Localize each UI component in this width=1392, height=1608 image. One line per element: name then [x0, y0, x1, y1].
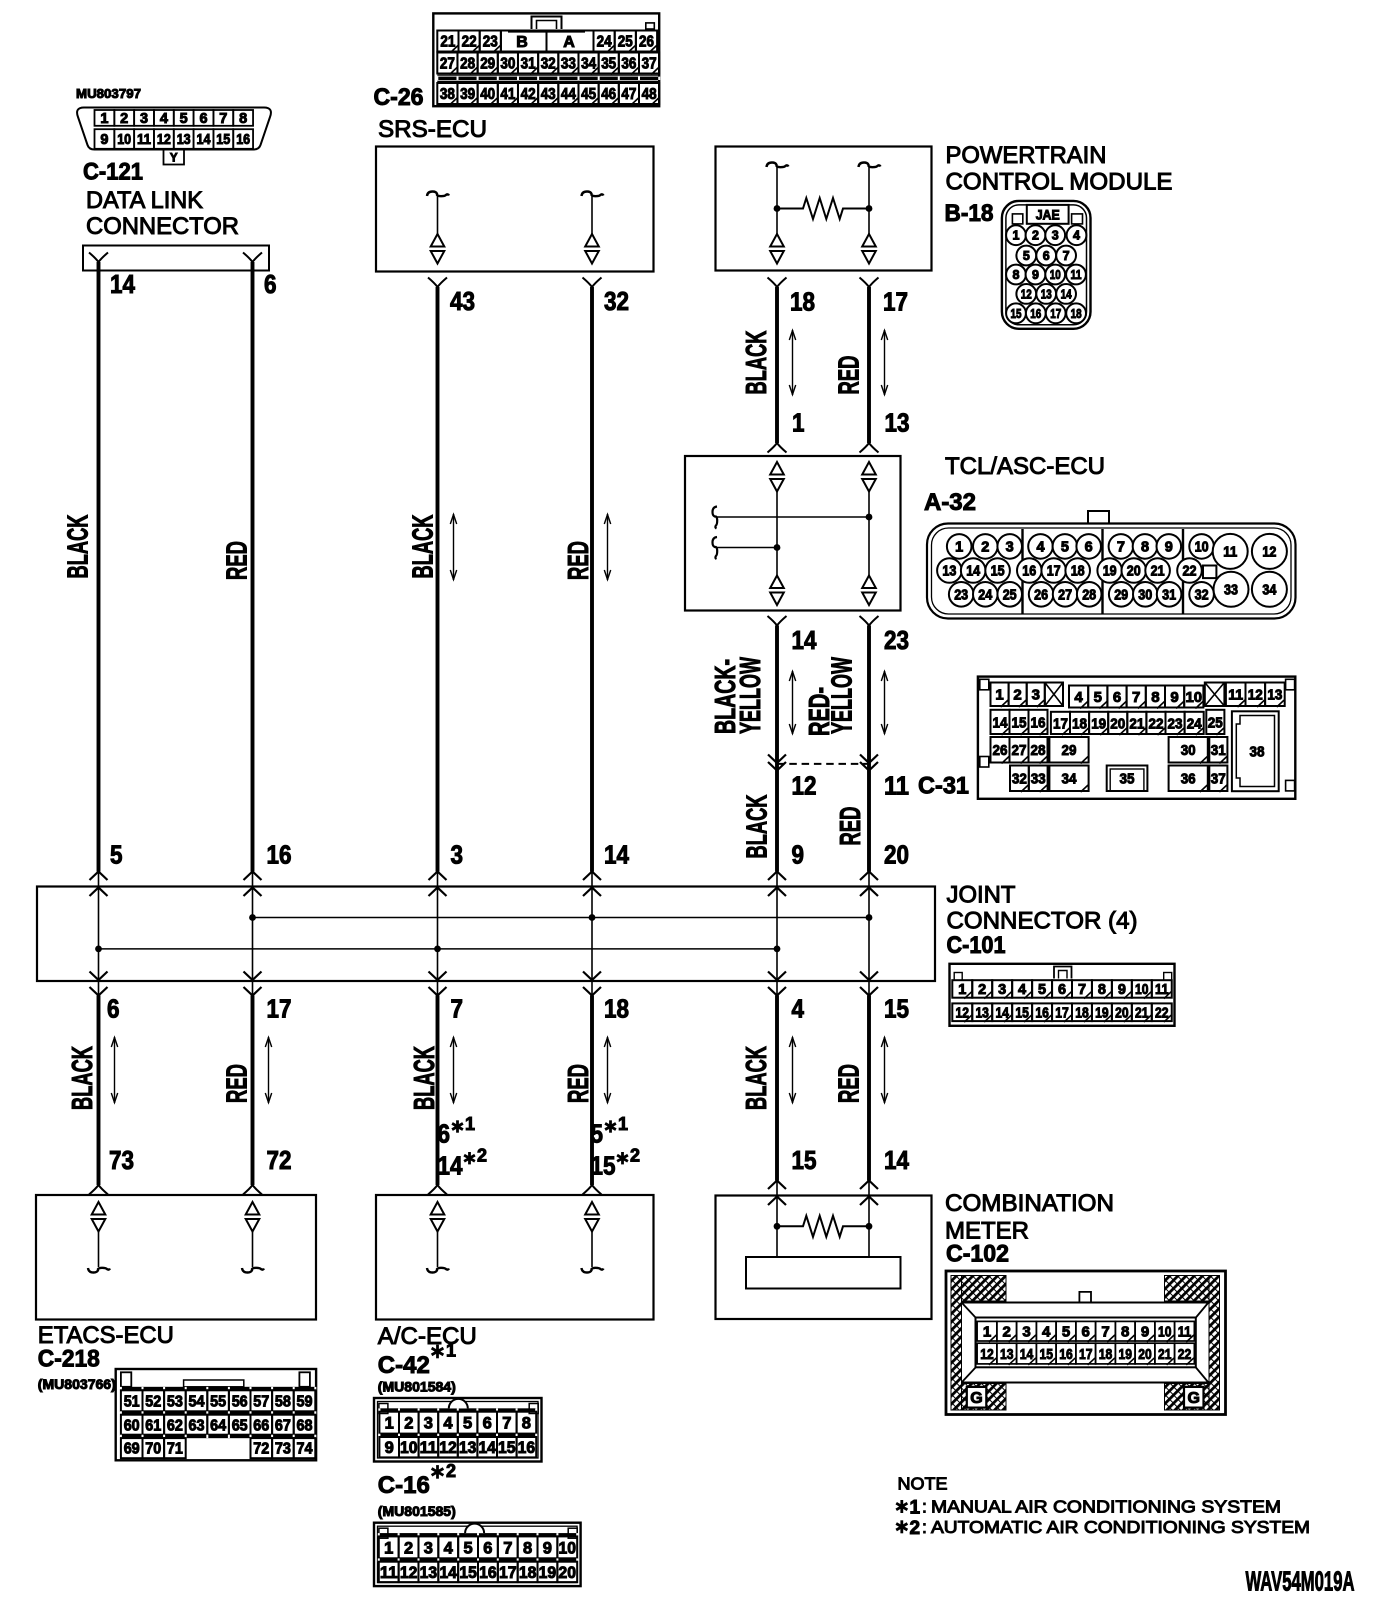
svg-text:57: 57 — [253, 1393, 269, 1410]
svg-text:6: 6 — [483, 1539, 492, 1557]
svg-text:27: 27 — [440, 56, 455, 73]
svg-text:36: 36 — [1181, 771, 1196, 788]
svg-text:29: 29 — [480, 56, 495, 73]
svg-text:6: 6 — [483, 1415, 492, 1433]
svg-text:4: 4 — [1073, 229, 1080, 243]
wire W4 thin segment inside C-101 — [591, 872, 593, 996]
svg-text:74: 74 — [297, 1441, 313, 1458]
svg-text:(MU801585): (MU801585) — [378, 1504, 456, 1519]
svg-text:CONTROL MODULE: CONTROL MODULE — [946, 169, 1173, 196]
svg-text:70: 70 — [145, 1441, 161, 1458]
TCL internal stem right — [868, 492, 870, 576]
svg-text:26: 26 — [639, 34, 654, 51]
svg-text:14: 14 — [438, 1150, 463, 1180]
svg-text:64: 64 — [210, 1417, 226, 1434]
svg-text:2: 2 — [910, 1518, 921, 1539]
TCL terminal triangles top pin 13 — [862, 462, 876, 492]
pin label 12 — [792, 771, 817, 801]
svg-text:3: 3 — [1006, 540, 1014, 556]
svg-text:2: 2 — [477, 1146, 487, 1166]
label C-16 *2 — [378, 1461, 456, 1499]
svg-text:32: 32 — [1195, 588, 1209, 604]
arrow on W5 (TCL-C31) — [789, 671, 795, 734]
svg-text:11: 11 — [1178, 1324, 1192, 1341]
svg-text:18: 18 — [519, 1564, 537, 1582]
svg-text:15: 15 — [498, 1439, 516, 1457]
svg-text:C-16: C-16 — [378, 1472, 430, 1499]
label ETACS-ECU — [38, 1322, 174, 1349]
svg-text:32: 32 — [541, 56, 556, 73]
wire color label BLACK (W3) — [408, 514, 440, 578]
svg-text:60: 60 — [124, 1417, 140, 1434]
wire color label RED-YELLOW — [804, 657, 859, 736]
svg-text:12: 12 — [792, 771, 817, 801]
svg-text:10: 10 — [559, 1539, 577, 1557]
svg-text:43: 43 — [450, 286, 475, 316]
label C-121 — [83, 158, 143, 185]
svg-text:15: 15 — [591, 1150, 616, 1180]
svg-text:RED: RED — [563, 541, 595, 580]
TCL internal horizontal line upper with curl, to W6 — [713, 507, 870, 529]
connector C-101 pinout graphic — [950, 964, 1175, 1026]
svg-text:10: 10 — [1050, 268, 1061, 282]
svg-text:2: 2 — [630, 1146, 640, 1166]
svg-text:25: 25 — [1003, 588, 1017, 604]
label DATA LINK CONNECTOR — [86, 187, 239, 240]
arrow on W2 below C-101 — [265, 1037, 271, 1103]
svg-text:RED: RED — [563, 1064, 595, 1103]
svg-text:28: 28 — [1082, 588, 1096, 604]
crossing chevrons W1 at C-101 top — [90, 872, 108, 897]
svg-text:15: 15 — [792, 1145, 817, 1175]
crossing chevrons W4 at C-101 top — [583, 872, 601, 897]
wire W2 thin segment inside C-101 — [252, 872, 254, 996]
wire color label BLACK (PCM-TCL) — [741, 330, 773, 394]
svg-text:7: 7 — [219, 111, 227, 127]
svg-text:68: 68 — [297, 1417, 313, 1434]
svg-text:20: 20 — [1138, 1346, 1152, 1363]
pin label 9 — [792, 839, 805, 869]
svg-text:8: 8 — [1121, 1324, 1129, 1341]
svg-text:33: 33 — [1224, 583, 1238, 599]
crossing chevrons W6 at C-31 — [860, 755, 878, 771]
svg-text:SRS-ECU: SRS-ECU — [378, 116, 487, 143]
crossing chevrons W5 at C-101 top — [768, 872, 786, 897]
svg-text:38: 38 — [440, 86, 455, 103]
svg-text:72: 72 — [267, 1145, 292, 1175]
wire W6 thin segment inside C-101 — [868, 872, 870, 996]
svg-text:20: 20 — [884, 839, 909, 869]
svg-text:24: 24 — [978, 588, 992, 604]
svg-text:18: 18 — [790, 287, 815, 317]
svg-text:C-26: C-26 — [374, 84, 424, 111]
svg-text:23: 23 — [1168, 715, 1183, 732]
svg-text:13: 13 — [459, 1439, 477, 1457]
svg-text:G: G — [970, 1390, 982, 1407]
svg-text:1: 1 — [465, 1114, 475, 1134]
svg-text:9: 9 — [1141, 1324, 1149, 1341]
svg-text:BLACK: BLACK — [741, 330, 773, 394]
wire W6 RED segment C-31 pin11 to C-101 pin20 — [867, 763, 871, 872]
svg-text:69: 69 — [124, 1441, 140, 1458]
svg-text:17: 17 — [1050, 307, 1061, 321]
NOTE text block — [896, 1474, 1310, 1539]
meter unit rectangle — [746, 1257, 901, 1289]
svg-text:22: 22 — [1183, 564, 1197, 580]
svg-text:12: 12 — [1248, 687, 1263, 704]
svg-text:9: 9 — [792, 839, 805, 869]
svg-text:48: 48 — [642, 86, 657, 103]
svg-text:8: 8 — [1151, 689, 1159, 706]
svg-text:8: 8 — [523, 1539, 532, 1557]
svg-text:34: 34 — [581, 56, 596, 73]
A/C-ECU terminal triangles left + stem + curl — [427, 1202, 449, 1273]
pin label 16 — [267, 839, 292, 869]
svg-text:26: 26 — [1034, 588, 1048, 604]
svg-text:POWERTRAIN: POWERTRAIN — [946, 142, 1107, 169]
connector C-16 pinout graphic — [374, 1523, 581, 1586]
svg-text:14: 14 — [792, 625, 817, 655]
svg-text:11: 11 — [1223, 545, 1237, 561]
wire W5 BLACK segment C-31 pin12 to C-101 pin9 — [775, 763, 779, 872]
svg-text:3: 3 — [451, 839, 464, 869]
svg-text:12: 12 — [439, 1439, 457, 1457]
svg-text:16: 16 — [1031, 714, 1046, 731]
svg-text:1: 1 — [100, 111, 108, 127]
svg-text:37: 37 — [1211, 771, 1226, 788]
svg-text:13: 13 — [420, 1564, 438, 1582]
svg-text:4: 4 — [792, 994, 805, 1024]
svg-text:29: 29 — [1062, 742, 1077, 759]
svg-text:34: 34 — [1062, 771, 1078, 788]
pin label 5 — [110, 839, 123, 869]
svg-text:23: 23 — [483, 34, 498, 51]
svg-text:BLACK: BLACK — [741, 1046, 773, 1110]
label C-26 — [374, 84, 424, 111]
wire color label RED (W6 bottom) — [834, 1064, 866, 1103]
svg-text:TCL/ASC-ECU: TCL/ASC-ECU — [945, 453, 1105, 480]
svg-text:31: 31 — [1162, 588, 1176, 604]
svg-text:5: 5 — [1038, 982, 1046, 998]
svg-text:14: 14 — [993, 714, 1009, 731]
svg-text:17: 17 — [499, 1564, 517, 1582]
svg-text:MANUAL AIR CONDITIONING SYSTEM: MANUAL AIR CONDITIONING SYSTEM — [931, 1497, 1281, 1517]
wire W1 BLACK segment C-121 pin14 to C-101 pin5 — [97, 262, 101, 872]
wire W2 RED segment C-121 pin6 to C-101 pin16 — [251, 262, 255, 872]
svg-text:MU803797: MU803797 — [76, 86, 141, 101]
svg-text:31: 31 — [521, 56, 536, 73]
terminal fork C-218 pin 73 — [89, 1185, 108, 1195]
svg-text:32: 32 — [604, 286, 629, 316]
svg-text:13: 13 — [1000, 1346, 1014, 1363]
svg-text:6: 6 — [107, 994, 120, 1024]
svg-text:1: 1 — [792, 408, 805, 438]
svg-text:C-31: C-31 — [918, 772, 969, 799]
wire color label RED (PCM-TCL) — [834, 356, 866, 395]
svg-text:23: 23 — [884, 625, 909, 655]
svg-text:11: 11 — [1071, 268, 1082, 282]
label C-42 *1 — [378, 1341, 456, 1379]
pin label 32 — [604, 286, 629, 316]
SRS-ECU internal wire end (pin 32 side) — [582, 192, 604, 264]
crossing chevrons W2 at C-101 top — [244, 872, 262, 897]
terminal fork B-18 pin 18 — [768, 278, 787, 288]
svg-text:18: 18 — [1071, 564, 1085, 580]
C-101 internal bus (RED wires: 16-14-20 / 17-18-15) — [249, 914, 872, 921]
terminal fork C-218 pin 72 — [243, 1185, 262, 1195]
wire color label BLACK-YELLOW — [710, 657, 767, 734]
pin label 73 — [109, 1145, 134, 1175]
terminal fork C-121 pin 6 — [243, 253, 262, 263]
svg-text:16: 16 — [479, 1564, 497, 1582]
svg-text:10: 10 — [117, 132, 131, 148]
junction dot CM left — [774, 1223, 781, 1230]
label COMBINATION METER C-102 — [945, 1190, 1114, 1268]
svg-text:15: 15 — [1011, 307, 1022, 321]
pin label 14 (C-121) — [110, 269, 135, 299]
svg-text:5: 5 — [464, 1539, 473, 1557]
svg-text:15: 15 — [991, 564, 1005, 580]
PCM terminal triangles pin 17 — [862, 234, 876, 264]
svg-text:42: 42 — [521, 86, 536, 103]
svg-text:28: 28 — [460, 56, 475, 73]
wire W1 thin segment inside C-101 — [98, 872, 100, 996]
svg-text:1: 1 — [446, 1341, 456, 1361]
pin label 72 — [267, 1145, 292, 1175]
pin label 17 — [267, 994, 292, 1024]
svg-text:27: 27 — [1058, 588, 1072, 604]
svg-text:13: 13 — [942, 564, 956, 580]
terminal fork C-26 pin 32 — [583, 278, 602, 288]
svg-text:9: 9 — [100, 132, 108, 148]
TCL terminal triangles top pin 1 — [770, 462, 784, 492]
svg-text:46: 46 — [601, 86, 616, 103]
label (MU801584) — [378, 1380, 456, 1395]
svg-text:9: 9 — [385, 1439, 394, 1457]
svg-text:C-42: C-42 — [378, 1352, 430, 1379]
svg-text:2: 2 — [978, 982, 986, 998]
svg-text:15: 15 — [459, 1564, 477, 1582]
wire color label BLACK (W5 bottom) — [741, 1046, 773, 1110]
svg-text:18: 18 — [1099, 1346, 1113, 1363]
CM internal wire W6: stem to meter — [868, 1181, 870, 1258]
label (MU801585) — [378, 1504, 456, 1519]
svg-text:2: 2 — [120, 111, 128, 127]
svg-text:8: 8 — [1013, 268, 1020, 282]
svg-text:6: 6 — [1058, 982, 1066, 998]
TCL terminal triangles bottom pin 23 — [862, 576, 876, 606]
connector C-102 pinout graphic — [946, 1271, 1226, 1415]
svg-text:28: 28 — [1031, 742, 1046, 759]
svg-text:67: 67 — [275, 1417, 291, 1434]
svg-text:6: 6 — [199, 111, 207, 127]
svg-text:1: 1 — [995, 687, 1003, 704]
label A/C-ECU — [378, 1323, 477, 1350]
wire W3 BLACK segment C-26 pin43 to C-101 pin3 — [436, 287, 440, 872]
wire color label BLACK (C31-joint) — [742, 794, 774, 858]
label B-18 — [945, 200, 994, 227]
label POWERTRAIN CONTROL MODULE — [946, 142, 1173, 196]
svg-text:19: 19 — [1091, 715, 1106, 732]
svg-text:C-121: C-121 — [83, 158, 143, 185]
svg-text:53: 53 — [167, 1393, 183, 1410]
TCL internal stem left — [776, 492, 778, 576]
svg-text:6: 6 — [1113, 689, 1121, 706]
svg-text:CONNECTOR: CONNECTOR — [86, 213, 239, 240]
resistor inside combination meter — [777, 1216, 869, 1237]
arrow on W4 below C-101 — [604, 1037, 610, 1103]
svg-text:JAE: JAE — [1036, 207, 1060, 222]
PCM internal wire (pin 18 side): curl + stem — [767, 163, 789, 235]
svg-text:BLACK: BLACK — [409, 1046, 441, 1110]
connector B-18 pinout graphic (JAE) — [1002, 201, 1091, 329]
COMBINATION METER module box — [716, 1196, 932, 1320]
svg-text:1: 1 — [618, 1114, 628, 1134]
crossing chevrons W3 at C-101 top — [429, 872, 447, 897]
JOINT CONNECTOR (4) C-101 box — [37, 887, 935, 982]
wire W4 RED segment C-26 pin32 to C-101 pin14 — [590, 287, 594, 872]
pin label 14 (C-101 top W4) — [604, 839, 629, 869]
svg-text:BLACK: BLACK — [742, 794, 774, 858]
junction dot PCM left — [774, 205, 781, 212]
svg-text:1: 1 — [910, 1498, 921, 1519]
svg-text:AUTOMATIC AIR CONDITIONING SYS: AUTOMATIC AIR CONDITIONING SYSTEM — [931, 1517, 1310, 1537]
svg-text:44: 44 — [561, 86, 576, 103]
svg-text:5: 5 — [591, 1119, 604, 1149]
PCM terminal triangles pin 18 — [770, 234, 784, 264]
svg-text:47: 47 — [621, 86, 636, 103]
wire W3 BLACK segment C-101 to bottom module — [436, 996, 440, 1186]
svg-text:17: 17 — [1047, 564, 1061, 580]
svg-text:B-18: B-18 — [945, 200, 994, 227]
svg-text:39: 39 — [460, 86, 475, 103]
svg-text:7: 7 — [503, 1539, 512, 1557]
PCM internal wire (pin 17 side): curl + stem — [859, 163, 881, 235]
crossing chevrons W5 at C-31 — [768, 755, 786, 771]
svg-text:41: 41 — [500, 86, 515, 103]
svg-text:BLACK: BLACK — [67, 1046, 99, 1110]
svg-text:5: 5 — [180, 111, 188, 127]
svg-text:8: 8 — [522, 1415, 531, 1433]
svg-text:9: 9 — [1032, 268, 1039, 282]
wire color label RED (W2) — [222, 541, 254, 580]
svg-text:35: 35 — [1120, 771, 1135, 788]
pin label 15 — [884, 994, 909, 1024]
wire W6 RED-YELLOW segment A-32 pin23 to C-31 pin11 — [867, 626, 871, 764]
svg-text:26: 26 — [993, 742, 1008, 759]
svg-text:2: 2 — [446, 1461, 456, 1481]
svg-text:12: 12 — [980, 1346, 994, 1363]
svg-text:11: 11 — [884, 771, 909, 801]
combination meter crossing chevrons W6 — [860, 1181, 878, 1206]
svg-text:16: 16 — [1030, 307, 1041, 321]
svg-text:51: 51 — [124, 1393, 140, 1410]
junction dot on W6 (TCL) — [866, 514, 873, 521]
arrow on W3 below C-101 — [450, 1037, 456, 1103]
arrow on W6 (TCL-C31) — [881, 671, 887, 734]
pin label 14 — [792, 625, 817, 655]
svg-text:4: 4 — [1042, 1324, 1051, 1341]
svg-text:21: 21 — [1129, 715, 1144, 732]
svg-text:4: 4 — [443, 1415, 453, 1433]
svg-text:18: 18 — [1071, 307, 1082, 321]
svg-text:37: 37 — [642, 56, 657, 73]
svg-text:9: 9 — [1118, 982, 1126, 998]
svg-text:29: 29 — [1114, 588, 1128, 604]
svg-text:33: 33 — [561, 56, 576, 73]
svg-text:(MU803766): (MU803766) — [38, 1377, 116, 1392]
arrow on W4 — [604, 514, 610, 580]
pin label 18 — [604, 994, 629, 1024]
arrow on W6 — [881, 330, 887, 395]
svg-text:4: 4 — [1074, 689, 1083, 706]
SRS-ECU module box — [376, 147, 654, 272]
connector A-32 pinout graphic — [927, 511, 1296, 619]
label (MU803766) — [38, 1377, 116, 1392]
svg-text:3: 3 — [1052, 229, 1059, 243]
svg-text:36: 36 — [621, 56, 636, 73]
svg-text:14: 14 — [1020, 1346, 1034, 1363]
svg-text:14: 14 — [478, 1439, 496, 1457]
crossing chevrons W3 at C-101 bottom — [429, 972, 447, 996]
combination meter crossing chevrons W5 — [768, 1181, 786, 1206]
svg-text:COMBINATION: COMBINATION — [945, 1190, 1114, 1217]
wire color label BLACK (W3 bottom) — [409, 1046, 441, 1110]
svg-text:3: 3 — [1032, 687, 1040, 704]
terminal fork A-32 pin 23 — [860, 616, 879, 626]
svg-text:8: 8 — [1098, 982, 1106, 998]
terminal fork A-32 pin 14 — [768, 616, 787, 626]
svg-text:(MU801584): (MU801584) — [378, 1380, 456, 1395]
svg-text:23: 23 — [954, 588, 968, 604]
wire W5 BLACK segment B-18 pin18 to A-32 pin1 — [775, 287, 779, 443]
svg-text:59: 59 — [297, 1393, 313, 1410]
pin label 1 — [792, 408, 805, 438]
label C-31 — [918, 772, 969, 799]
crossing chevrons W6 at C-101 top — [860, 872, 878, 897]
svg-text:7: 7 — [451, 994, 464, 1024]
svg-text:35: 35 — [601, 56, 616, 73]
svg-text:65: 65 — [232, 1417, 248, 1434]
svg-text:5: 5 — [1094, 689, 1102, 706]
svg-text:15: 15 — [1039, 1346, 1053, 1363]
svg-text:61: 61 — [145, 1417, 161, 1434]
svg-text:RED: RED — [222, 541, 254, 580]
svg-text:25: 25 — [1208, 714, 1223, 731]
pin label 13 — [885, 408, 910, 438]
svg-text:11: 11 — [137, 132, 151, 148]
pin label 6 (C-121) — [264, 269, 277, 299]
svg-text:16: 16 — [1022, 564, 1036, 580]
svg-text:3: 3 — [140, 111, 148, 127]
svg-text:20: 20 — [1127, 564, 1141, 580]
svg-text:1: 1 — [983, 1324, 991, 1341]
svg-text:8: 8 — [1141, 540, 1149, 556]
junction dot CM right — [866, 1223, 873, 1230]
svg-text::: : — [922, 1497, 927, 1517]
svg-text:55: 55 — [210, 1393, 226, 1410]
svg-text:13: 13 — [1041, 287, 1052, 301]
svg-text:C-102: C-102 — [946, 1240, 1009, 1267]
junction dot PCM right — [866, 205, 873, 212]
terminal fork A/C-ECU pin — [583, 1185, 602, 1195]
svg-text:19: 19 — [1103, 564, 1117, 580]
wire color label RED (W4) — [563, 541, 595, 580]
svg-text:13: 13 — [1267, 687, 1282, 704]
svg-text:17: 17 — [1053, 715, 1068, 732]
svg-text:4: 4 — [1036, 540, 1044, 556]
svg-text:G: G — [1187, 1390, 1199, 1407]
